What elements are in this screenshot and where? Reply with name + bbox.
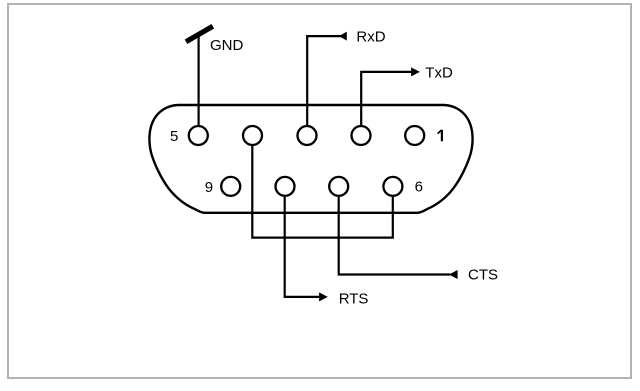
svg-text:CTS: CTS xyxy=(468,267,498,284)
svg-text:5: 5 xyxy=(170,128,178,145)
svg-text:RxD: RxD xyxy=(356,29,385,46)
svg-text:GND: GND xyxy=(210,37,244,54)
svg-text:RTS: RTS xyxy=(339,291,369,308)
svg-text:9: 9 xyxy=(205,179,213,196)
svg-text:6: 6 xyxy=(415,179,423,196)
svg-text:TxD: TxD xyxy=(425,65,453,82)
